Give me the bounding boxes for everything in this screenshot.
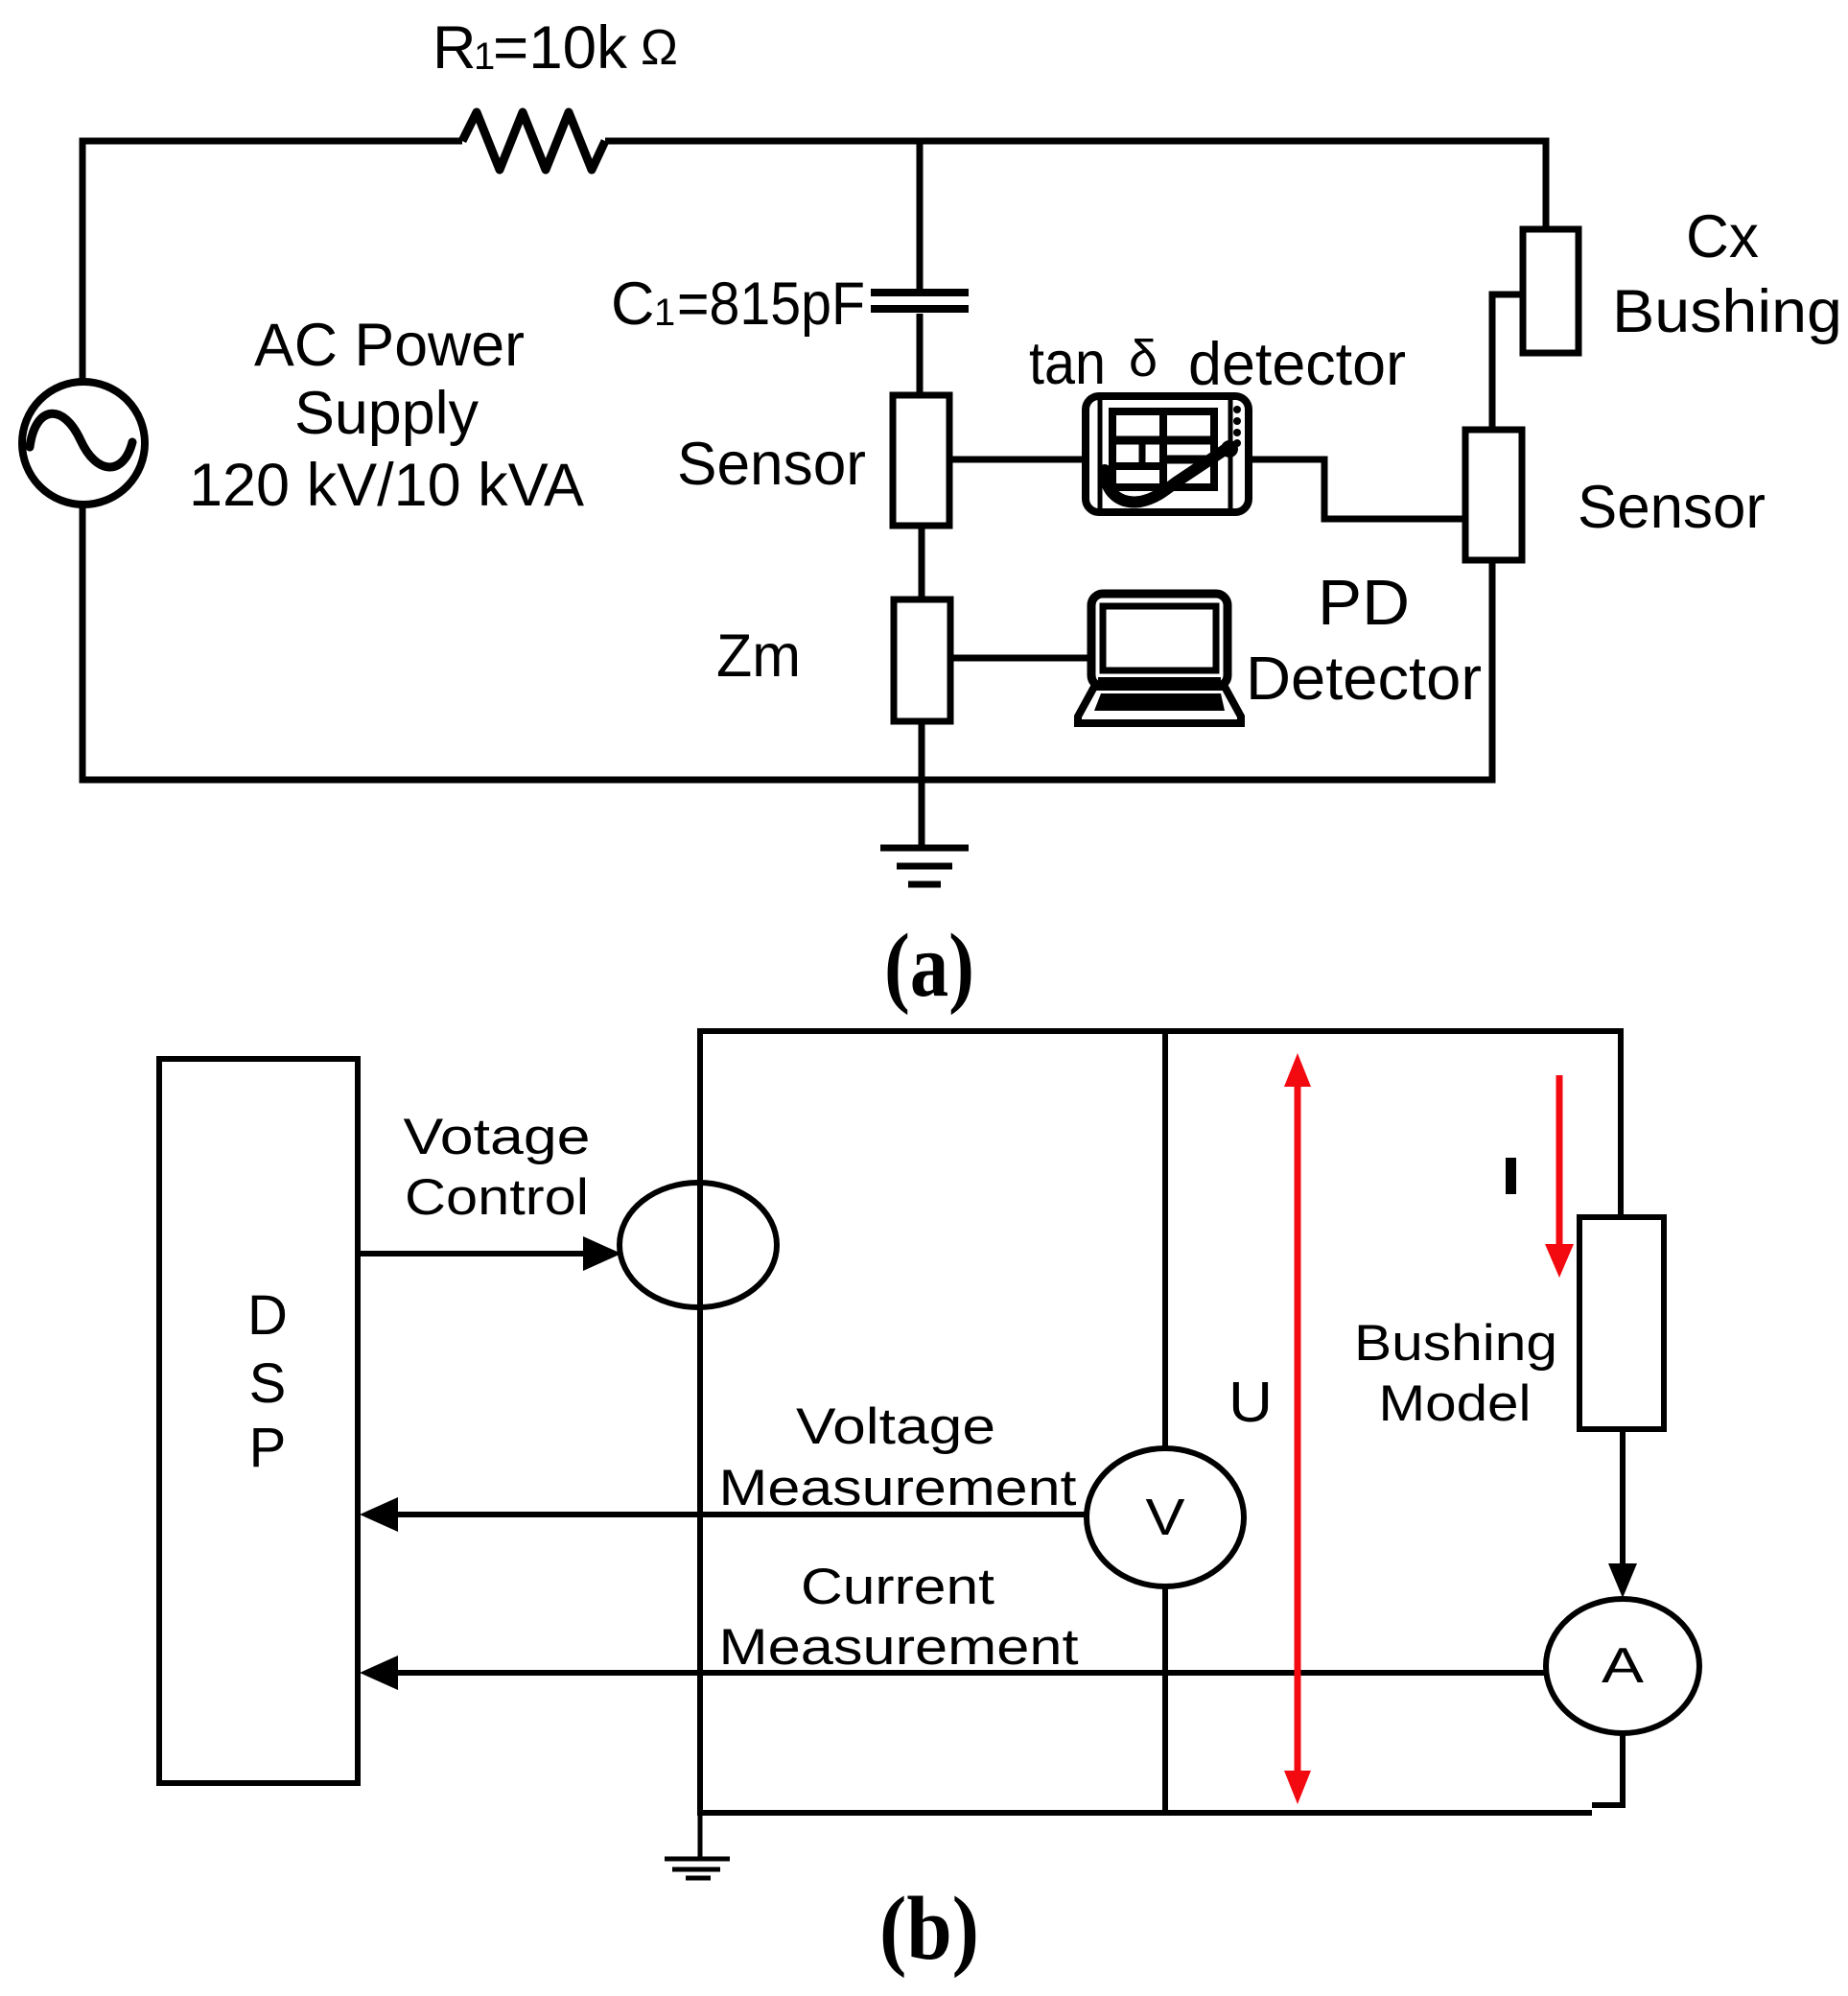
svg-text:D: D xyxy=(247,1284,288,1347)
svg-text:=815pF: =815pF xyxy=(677,270,865,338)
svg-text:detector: detector xyxy=(1188,331,1406,398)
svg-text:1: 1 xyxy=(654,292,675,334)
svg-text:Detector: Detector xyxy=(1246,644,1482,713)
svg-text:Cx: Cx xyxy=(1686,203,1759,270)
svg-text:=10k: =10k xyxy=(493,14,627,82)
svg-text:(a): (a) xyxy=(884,916,974,1016)
svg-text:1: 1 xyxy=(474,35,495,78)
svg-text:Sensor: Sensor xyxy=(677,431,866,498)
svg-text:S: S xyxy=(249,1352,287,1415)
svg-text:Control: Control xyxy=(405,1169,589,1226)
svg-text:Sensor: Sensor xyxy=(1578,474,1766,541)
svg-text:Measurement: Measurement xyxy=(719,1619,1079,1676)
svg-text:P: P xyxy=(249,1417,287,1479)
svg-text:A: A xyxy=(1602,1638,1644,1694)
svg-text:U: U xyxy=(1228,1371,1273,1434)
svg-text:Bushing: Bushing xyxy=(1354,1315,1557,1372)
svg-text:(b): (b) xyxy=(879,1879,979,1979)
svg-text:120 kV/10 kVA: 120 kV/10 kVA xyxy=(189,452,584,519)
svg-text:Bushing: Bushing xyxy=(1612,278,1842,345)
svg-text:R: R xyxy=(433,14,477,82)
svg-text:Votage: Votage xyxy=(404,1109,591,1165)
svg-text:tan: tan xyxy=(1029,330,1106,397)
svg-text:Supply: Supply xyxy=(294,380,479,447)
svg-text:Current: Current xyxy=(801,1559,994,1615)
svg-text:Voltage: Voltage xyxy=(796,1398,995,1455)
svg-text:Zm: Zm xyxy=(716,622,801,690)
svg-text:δ: δ xyxy=(1129,330,1158,387)
svg-text:Measurement: Measurement xyxy=(719,1460,1077,1516)
svg-text:V: V xyxy=(1146,1489,1185,1546)
svg-text:Model: Model xyxy=(1379,1375,1532,1432)
svg-text:C: C xyxy=(611,270,655,338)
svg-text:Ω: Ω xyxy=(641,20,678,76)
svg-text:AC Power: AC Power xyxy=(254,312,525,379)
svg-text:PD: PD xyxy=(1318,567,1410,639)
